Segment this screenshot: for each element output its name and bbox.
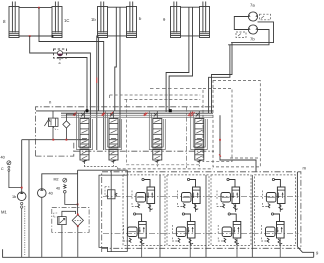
dashed stub right [230, 157, 260, 159]
bottom right collector [297, 247, 313, 258]
red check mark 1 [73, 113, 77, 116]
svg-text:40: 40 [56, 187, 60, 191]
cylinder C5 (pair 3 left) [171, 2, 181, 38]
node red filter top [77, 214, 79, 216]
svg-text:M1: M1 [1, 210, 7, 215]
row1 valve bottom stubs [150, 204, 280, 212]
pump P1 [17, 192, 26, 201]
node bus junction 2 (black square) [169, 109, 172, 112]
red check mark 3 [144, 113, 148, 116]
filter unit dash-dot box [52, 208, 89, 233]
node pair1 bottom (red) [29, 35, 31, 37]
wire motor pair down A [212, 43, 233, 113]
coupling under pump P1 [21, 202, 23, 204]
red check mark 4 (larger) [188, 112, 195, 117]
red tick on x220 lower [219, 155, 221, 157]
wire motor left bus [234, 17, 248, 30]
node red filter junction [77, 204, 79, 206]
wire pump2 up elbow to filter line [42, 174, 78, 189]
valve stack V4 [195, 111, 204, 167]
dashed box B (around V4 top) [203, 89, 232, 162]
wire pair1 top line [19, 7, 52, 9]
relief valve RV1 (left of manifold) [44, 118, 58, 130]
cylinder C6 (pair 3 right) [200, 2, 210, 38]
dashed box A (motor feed group) [213, 81, 260, 167]
wire component bottom branch [57, 58, 87, 111]
row dash-dot lines [103, 196, 299, 233]
node pair1 bottom-right junction [52, 35, 54, 37]
wire gauge to pump line [9, 171, 22, 187]
node red dot RV drain [52, 139, 54, 141]
bottom valve unit r1c1 [132, 178, 155, 210]
wire relief valve top to bus [52, 111, 54, 118]
bus line A (gray) [61, 114, 213, 116]
valve V1 side loops [77, 111, 93, 150]
dashed group box G2 [167, 175, 209, 246]
cylinder C4 (pair 2 right) [127, 2, 137, 38]
valve stack V2 [109, 111, 118, 167]
bus line B (gray) [61, 116, 213, 118]
dashed group box G1 [123, 175, 165, 246]
red tick on x=96.7 [96, 78, 98, 84]
wire pair2 top line [108, 6, 127, 8]
wire motor right bus [231, 22, 273, 43]
bottom valve unit r1c3 [217, 178, 240, 210]
dashed pilot lines above manifold [110, 95, 201, 165]
bottom outer dash-dot frame [102, 172, 301, 252]
valve V4 side loops [191, 111, 208, 150]
dash-dot divider between v3 and v4 [186, 107, 188, 168]
staircase into tank [99, 246, 127, 252]
wire motor pair down B [209, 45, 230, 113]
spring under gauge2 [64, 185, 67, 189]
valve V2 side loops [106, 111, 122, 150]
node bus junction (black dot) [85, 109, 88, 112]
pilot component K (dashed box with circle) [54, 49, 67, 65]
cylinder C3 (pair 2 left) [98, 2, 108, 38]
bottom valve unit r2c4 [262, 213, 285, 245]
pump P2 [38, 189, 47, 198]
tank / bottom line [3, 249, 314, 257]
bottom valve unit r2c3 [218, 213, 241, 245]
svg-text:m: m [303, 166, 307, 171]
pump P1 case drain dotted [24, 206, 26, 255]
svg-text:a: a [59, 61, 61, 65]
motor M7a [248, 12, 257, 21]
wire return branch down (x=29) [28, 140, 30, 258]
main return vertical through filter [77, 170, 79, 215]
valve stack V1 [80, 111, 89, 167]
svg-text:40: 40 [1, 156, 5, 160]
bus line P (dark) [36, 110, 213, 112]
dashed group box G4 [255, 175, 296, 246]
wire pump2 down to tank [41, 197, 43, 257]
node red filter bottom [77, 225, 79, 227]
svg-text:40: 40 [49, 192, 53, 196]
coupling circles under gauge [8, 166, 10, 168]
wire pair3 bottom line [181, 35, 200, 37]
dashed link line [118, 168, 213, 170]
wire mid-right supply: bus to bottom right [220, 115, 256, 172]
filter diamond [72, 215, 83, 226]
dashed drop valve1 [85, 162, 118, 170]
wire pair2 bottom line [108, 35, 127, 37]
wire gauge2 elbow to filter line [65, 193, 78, 204]
wire pair1 bottom line [19, 35, 52, 37]
check valve diamond D1 [63, 114, 76, 140]
left feed verticals in bottom section [110, 170, 112, 251]
node red dot diamond drain [66, 139, 68, 141]
wire pair3 top line [181, 6, 200, 8]
gauge PG2 [63, 178, 67, 182]
right edge supply line [296, 172, 298, 247]
bottom valve unit r1c4 [262, 178, 285, 210]
wire pump1 riser [21, 140, 23, 192]
svg-text:C: C [1, 167, 4, 171]
bypass valve in filter box [54, 213, 66, 225]
wire relief valve down [52, 126, 54, 139]
manifold dash-dot enclosure [36, 107, 215, 156]
inner box top-left corner bottom section [99, 175, 127, 246]
bottom valve unit r1c2 [178, 178, 201, 210]
node pair1 top (red) [38, 7, 40, 9]
relief valve RV2 bottom-left [105, 187, 117, 199]
wire pair2 drop B [119, 7, 121, 148]
svg-text:M2: M2 [54, 178, 59, 182]
bus line T (dark) [61, 112, 213, 114]
bottom valve unit r2c1 [124, 213, 147, 245]
wire cyl1 bottom to component line [30, 36, 54, 53]
row2 valve bottom stubs [142, 239, 281, 258]
red check mark 2b [110, 112, 113, 115]
top edge of bottom-left box [78, 169, 128, 171]
wire component to right drop [67, 53, 91, 148]
group supply verticals [159, 175, 161, 257]
wire pair3 drop B with jog [169, 7, 192, 112]
valve V3 side loops [149, 111, 165, 150]
wire cyl pair2 left port A [97, 36, 99, 150]
motor drain box right (dashed) [260, 14, 271, 20]
node red pump junction [21, 187, 23, 189]
dashed line y=88.5 left extension [150, 88, 203, 90]
svg-text:7b: 7b [250, 37, 255, 42]
pump station: gauge PG1 [7, 161, 11, 165]
red check mark 2 [102, 113, 106, 116]
node red dot on x220 [219, 139, 221, 141]
bypass connector loop [62, 211, 76, 216]
valve stack V3 [153, 111, 162, 167]
wire cyl1 top to drop right [39, 8, 104, 150]
wire pair2 drop A [115, 7, 117, 110]
motor M7b [248, 25, 257, 34]
wire motor bottom link [228, 30, 269, 45]
wire cyl pair2 left port B [98, 38, 100, 111]
dashed group box G3 [211, 175, 251, 246]
return line under manifold [22, 139, 86, 141]
svg-text:7a: 7a [250, 3, 255, 8]
cylinder C2 (pair 1 right) [52, 2, 62, 38]
motor drain box left (dashed) [236, 32, 246, 38]
cylinder C1 (pair 1 left) [9, 2, 19, 38]
bottom valve unit r2c2 [172, 213, 195, 245]
wire bypass valve drain to tank [61, 225, 63, 258]
svg-text:1b: 1b [91, 17, 96, 22]
svg-text:1C: 1C [64, 18, 69, 23]
wire pair3 drop A with jog [166, 7, 189, 112]
svg-text:1b: 1b [12, 195, 16, 199]
wire filter to tank [77, 226, 79, 257]
